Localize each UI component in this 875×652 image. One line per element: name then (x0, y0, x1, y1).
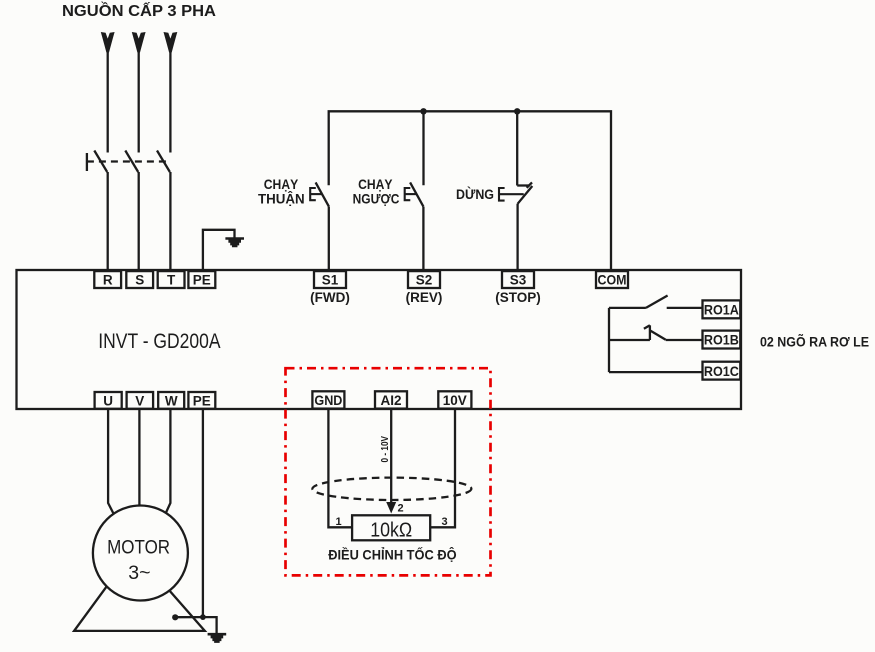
phase T input arrow (164, 32, 178, 53)
label CHAY NGUOC (353, 177, 400, 207)
wire 10V to pot pin3 (430, 409, 455, 527)
terminal S1 (310, 271, 350, 305)
svg-text:1: 1 (335, 516, 341, 528)
relay contact RO1A (NO) (609, 296, 703, 308)
svg-text:RO1A: RO1A (704, 302, 739, 318)
svg-text:NGƯỢC: NGƯỢC (353, 192, 400, 207)
circuit breaker linkage dashed (87, 160, 171, 162)
svg-text:(STOP): (STOP) (495, 290, 541, 305)
wire PE top (203, 230, 235, 270)
wire S2 drop (422, 111, 424, 185)
terminal RO1A (703, 300, 741, 318)
svg-text:DỪNG: DỪNG (456, 187, 494, 202)
push button S2 (NO) (405, 182, 424, 270)
speed pot enclosure red dashed box (286, 368, 491, 575)
svg-text:MOTOR: MOTOR (107, 537, 170, 559)
terminal R (94, 271, 121, 288)
wire phase T vertical (169, 50, 171, 153)
terminal AI2 (375, 391, 407, 408)
terminal PE bottom (188, 392, 215, 409)
svg-text:S2: S2 (416, 273, 433, 288)
svg-text:S1: S1 (322, 273, 339, 288)
svg-text:R: R (103, 273, 113, 288)
svg-text:S3: S3 (510, 273, 527, 288)
svg-text:3~: 3~ (128, 562, 150, 584)
potentiometer R1 10k (352, 515, 430, 541)
relay contact RO1B (NC) (609, 325, 703, 340)
svg-text:10V: 10V (443, 393, 467, 408)
wire AI2 to wiper (390, 409, 392, 503)
svg-text:U: U (103, 393, 113, 408)
svg-text:THUẬN: THUẬN (258, 192, 305, 207)
svg-text:10kΩ: 10kΩ (370, 520, 412, 542)
wire U to motor (108, 409, 113, 513)
wiper arrowhead (386, 502, 396, 514)
circuit breaker handle bar (86, 153, 88, 171)
circuit breaker CB pole 2 blade (125, 151, 138, 173)
wire motor frame to PE (175, 616, 203, 618)
phase S input arrow (132, 32, 146, 53)
junction PE ground (200, 614, 206, 620)
wire GND to pot pin1 (328, 409, 352, 527)
wire W to motor (166, 409, 171, 513)
wire PE to earth (203, 617, 217, 633)
wire R to terminal (107, 172, 109, 270)
svg-text:PE: PE (193, 273, 211, 288)
svg-text:CHẠY: CHẠY (264, 177, 298, 192)
svg-text:3: 3 (441, 516, 447, 528)
wire S to terminal (138, 172, 140, 270)
wire phase R vertical (107, 50, 109, 153)
motor M1 circle (93, 506, 188, 601)
terminal U (95, 392, 122, 409)
svg-text:02 NGÕ RA RƠ LE: 02 NGÕ RA RƠ LE (760, 335, 869, 350)
wire V to motor (138, 409, 140, 506)
svg-text:AI2: AI2 (380, 393, 401, 408)
svg-text:GND: GND (314, 393, 342, 408)
terminal RO1C (703, 362, 741, 380)
terminal S (126, 271, 153, 288)
svg-text:(REV): (REV) (406, 290, 443, 305)
circuit breaker CB pole 1 blade (94, 151, 107, 173)
inverter body INVT-GD200A (17, 270, 742, 409)
relay contact RO1C wire (609, 371, 703, 373)
ground symbol bottom (208, 633, 227, 643)
svg-text:NGUỒN CẤP 3 PHA: NGUỒN CẤP 3 PHA (62, 2, 216, 20)
svg-text:INVT - GD200A: INVT - GD200A (98, 330, 220, 353)
svg-text:2: 2 (397, 503, 403, 515)
terminal S2 (406, 271, 443, 305)
circuit breaker CB pole 3 blade (157, 151, 170, 173)
svg-text:COM: COM (598, 273, 627, 288)
terminal RO1B (703, 331, 741, 349)
svg-text:W: W (165, 393, 178, 408)
terminal T (158, 271, 185, 288)
terminal V (127, 392, 154, 409)
wire T to terminal (169, 172, 171, 270)
terminal PE top (188, 271, 215, 288)
svg-text:(FWD): (FWD) (310, 290, 350, 305)
junction S3 bus (514, 108, 520, 114)
svg-text:PE: PE (193, 393, 211, 408)
motor stand triangle (74, 550, 205, 631)
phase R input arrow (101, 32, 115, 53)
wire PE bottom drop (202, 409, 204, 617)
ground symbol top PE (225, 237, 244, 247)
label MOTOR 3~ (107, 537, 170, 585)
terminal 10V (438, 391, 471, 408)
svg-text:0 - 10V: 0 - 10V (380, 436, 391, 463)
terminal S3 (495, 271, 541, 305)
push button S1 (NO) (310, 182, 329, 270)
svg-text:T: T (167, 273, 176, 288)
terminal COM (596, 271, 628, 288)
wire phase S vertical (138, 50, 140, 153)
terminal GND (312, 391, 344, 408)
shield dashed ellipse (312, 478, 471, 500)
junction S2 bus (420, 108, 426, 114)
svg-text:CHẠY: CHẠY (358, 177, 392, 192)
junction motor frame (172, 614, 178, 620)
wire S3 drop (516, 111, 518, 185)
svg-text:V: V (135, 393, 144, 408)
control bus top (329, 111, 611, 270)
push button S3 (NC stop) (499, 182, 532, 270)
svg-text:RO1C: RO1C (704, 363, 739, 379)
label CHAY THUAN (258, 177, 305, 207)
svg-text:S: S (135, 273, 144, 288)
svg-text:ĐIỀU CHỈNH TỐC ĐỘ: ĐIỀU CHỈNH TỐC ĐỘ (328, 548, 456, 563)
svg-text:RO1B: RO1B (704, 332, 739, 348)
terminal W (158, 392, 184, 409)
relay common bus (608, 308, 610, 372)
